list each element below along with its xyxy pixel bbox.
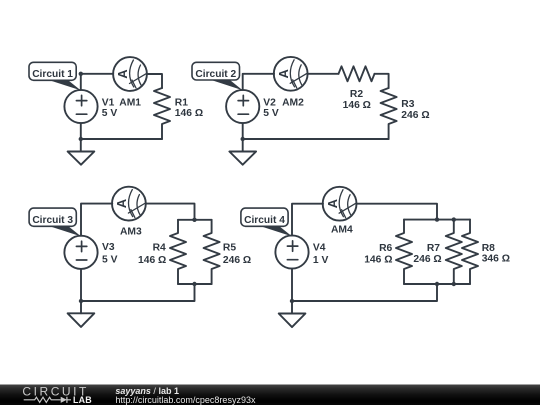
svg-text:R4: R4 bbox=[153, 243, 166, 254]
resistor R2 bbox=[339, 66, 375, 81]
svg-text:AM4: AM4 bbox=[331, 224, 353, 235]
node H (top rail junction right) bbox=[452, 217, 456, 221]
wire AM3 to top rail bbox=[146, 204, 195, 220]
value label 146 ohm bbox=[175, 108, 203, 119]
node F (ground junction) bbox=[79, 299, 83, 303]
wire V4 bottom to ground bbox=[291, 269, 293, 314]
value label 5 V bbox=[263, 108, 279, 119]
wire top rail bbox=[178, 219, 212, 221]
ground bbox=[229, 152, 256, 165]
svg-text:5 V: 5 V bbox=[102, 108, 118, 119]
node K (ground junction) bbox=[290, 299, 294, 303]
node A (top junction) bbox=[79, 72, 83, 76]
logo LAB text bbox=[73, 395, 92, 405]
svg-text:A: A bbox=[114, 198, 129, 208]
resistor R7 bbox=[446, 220, 462, 284]
ammeter AM2 bbox=[274, 57, 308, 91]
node E (bottom rail junction) bbox=[192, 282, 196, 286]
wire AM4 to top rail bbox=[356, 204, 437, 220]
value label AM4 bbox=[331, 224, 353, 235]
resistor R1 bbox=[154, 88, 170, 139]
wire top rail bbox=[404, 219, 470, 221]
value label V3 bbox=[102, 242, 115, 253]
logo resistor-diode wire bbox=[24, 397, 71, 403]
svg-text:Circuit 1: Circuit 1 bbox=[32, 69, 73, 80]
value label AM2 bbox=[282, 97, 304, 108]
wire V4 top to AM4 bbox=[292, 204, 323, 236]
node I (bottom rail junction left) bbox=[435, 282, 439, 286]
wire R1 bottom to node bbox=[81, 138, 162, 140]
value label 5 V bbox=[102, 108, 118, 119]
value label 146 ohm bbox=[364, 254, 392, 265]
resistor R3 bbox=[381, 88, 397, 139]
value label R5 bbox=[223, 243, 236, 254]
node D (top rail junction) bbox=[192, 218, 196, 222]
value label R2 bbox=[350, 89, 363, 100]
label Circuit 3 bbox=[29, 208, 81, 236]
voltage source V3 bbox=[64, 236, 97, 269]
value label 146 ohm bbox=[343, 100, 371, 111]
svg-text:A: A bbox=[325, 198, 340, 208]
resistor R8 bbox=[462, 220, 478, 284]
label Circuit 2 bbox=[192, 62, 243, 90]
svg-text:146 Ω: 146 Ω bbox=[175, 108, 203, 119]
ground bbox=[68, 313, 95, 327]
svg-text:A: A bbox=[276, 68, 291, 78]
svg-text:R5: R5 bbox=[223, 243, 236, 254]
footer title sayyans / lab 1 bbox=[115, 386, 179, 396]
footer url bbox=[115, 395, 256, 405]
label Circuit 1 bbox=[29, 62, 81, 90]
svg-text:V1: V1 bbox=[102, 97, 115, 108]
wire AM1 to R1 bbox=[147, 74, 162, 88]
value label R7 bbox=[427, 243, 440, 254]
svg-text:5 V: 5 V bbox=[102, 255, 118, 266]
svg-text:Circuit 4: Circuit 4 bbox=[244, 215, 285, 226]
value label V4 bbox=[313, 242, 326, 253]
svg-text:5 V: 5 V bbox=[263, 108, 279, 119]
footer bar bbox=[0, 385, 540, 405]
resistor R6 bbox=[396, 220, 412, 284]
svg-text:R8: R8 bbox=[482, 243, 495, 254]
svg-text:1 V: 1 V bbox=[313, 255, 329, 266]
svg-text:346 Ω: 346 Ω bbox=[482, 254, 510, 265]
wire bottom rail bbox=[178, 283, 212, 285]
svg-text:AM2: AM2 bbox=[282, 97, 304, 108]
svg-text:146 Ω: 146 Ω bbox=[138, 255, 166, 266]
svg-text:146 Ω: 146 Ω bbox=[364, 254, 392, 265]
svg-text:AM1: AM1 bbox=[119, 97, 141, 108]
wire V3 bottom to ground bbox=[80, 269, 82, 313]
value label 346 ohm bbox=[482, 254, 510, 265]
value label AM1 bbox=[119, 97, 141, 108]
value label V2 bbox=[263, 97, 276, 108]
value label 246 ohm bbox=[401, 110, 429, 121]
value label 1 V bbox=[313, 255, 329, 266]
svg-text:246 Ω: 246 Ω bbox=[413, 254, 441, 265]
ammeter AM4 bbox=[323, 187, 357, 221]
svg-text:R3: R3 bbox=[401, 99, 414, 110]
svg-text:LAB: LAB bbox=[73, 395, 92, 405]
svg-text:246 Ω: 246 Ω bbox=[401, 110, 429, 121]
value label 246 ohm bbox=[413, 254, 441, 265]
resistor R4 bbox=[170, 220, 186, 284]
value label 146 ohm bbox=[138, 255, 166, 266]
wire V3 top to AM3 bbox=[81, 204, 112, 236]
ammeter AM1 bbox=[113, 57, 147, 91]
wire bottom rail to ground node bbox=[292, 284, 437, 301]
ground bbox=[279, 314, 306, 328]
node B (bottom junction) bbox=[79, 137, 83, 141]
wire V1 bottom to node bbox=[80, 123, 82, 151]
value label AM3 bbox=[120, 226, 142, 237]
value label R8 bbox=[482, 243, 495, 254]
wire top node to V1 bbox=[80, 74, 82, 90]
svg-text:V4: V4 bbox=[313, 242, 326, 253]
svg-text:R2: R2 bbox=[350, 89, 363, 100]
value label R4 bbox=[153, 243, 166, 254]
wire top node to AM1 bbox=[81, 73, 113, 75]
svg-text:R1: R1 bbox=[175, 97, 188, 108]
voltage source V1 bbox=[64, 90, 97, 123]
label Circuit 4 bbox=[241, 208, 292, 236]
value label 246 ohm bbox=[223, 255, 251, 266]
value label R6 bbox=[379, 243, 392, 254]
svg-text:Circuit 2: Circuit 2 bbox=[195, 69, 236, 80]
svg-text:R6: R6 bbox=[379, 243, 392, 254]
voltage source V4 bbox=[275, 235, 308, 268]
logo CIRCUIT text bbox=[22, 385, 89, 399]
wire bottom rail bbox=[404, 283, 470, 285]
wire bottom rail to ground node bbox=[81, 284, 195, 301]
node C (bottom junction) bbox=[241, 137, 245, 141]
svg-text:A: A bbox=[115, 69, 130, 79]
ammeter AM3 bbox=[112, 187, 146, 221]
value label R3 bbox=[401, 99, 414, 110]
svg-text:146 Ω: 146 Ω bbox=[343, 100, 371, 111]
node J (bottom rail junction right) bbox=[452, 282, 456, 286]
voltage source V2 bbox=[226, 90, 259, 123]
wire V2 top to AM2 bbox=[243, 74, 274, 90]
svg-text:V3: V3 bbox=[102, 242, 115, 253]
wire V2 bottom to ground bbox=[242, 123, 244, 151]
svg-text:http://circuitlab.com/cpec8res: http://circuitlab.com/cpec8resyz93x bbox=[115, 395, 256, 405]
value label 5 V bbox=[102, 255, 118, 266]
svg-text:Circuit 3: Circuit 3 bbox=[32, 215, 73, 226]
value label V1 bbox=[102, 97, 115, 108]
svg-text:V2: V2 bbox=[263, 97, 276, 108]
svg-text:AM3: AM3 bbox=[120, 226, 142, 237]
wire R2 to R3 bbox=[375, 74, 389, 88]
resistor R5 bbox=[204, 220, 220, 284]
node G (top rail junction left) bbox=[435, 217, 439, 221]
wire R3 bottom to node bbox=[243, 138, 389, 140]
wire AM2 to R2 bbox=[308, 73, 339, 75]
value label R1 bbox=[175, 97, 188, 108]
ground bbox=[68, 152, 95, 165]
svg-text:246 Ω: 246 Ω bbox=[223, 255, 251, 266]
svg-text:R7: R7 bbox=[427, 243, 440, 254]
